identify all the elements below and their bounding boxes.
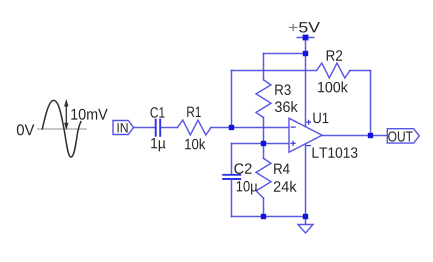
label 10mV [71,109,107,120]
label R1 [187,107,201,117]
op-amp non-inverting input mark [291,141,295,145]
label R2 [327,50,342,60]
resistor R2 [317,63,351,78]
sine wave [42,100,81,157]
label 10u [237,181,258,195]
label IN [118,123,128,132]
junction output node [368,133,373,138]
junction ground node [303,214,308,219]
wire R3 top lead [263,54,265,80]
op-amp V+ pin mark [307,120,311,124]
label OUT [388,131,413,141]
label U1 [313,113,328,123]
label 1u [151,138,165,151]
junction R4 bottom [261,214,266,219]
ground symbol [298,225,313,234]
op-amp U1 triangle [289,118,322,152]
label 100k [318,81,348,92]
wire C1 to R1 [160,127,177,129]
wire R3 bottom lead [263,118,265,144]
junction bias node [261,141,266,146]
wire C2 top lead [231,144,233,175]
wire R4 bottom lead [263,198,265,217]
wire down to output node [370,71,372,136]
wire R2 to output rail [350,70,371,72]
+5V supply flag [297,37,314,39]
label LT1013 [313,147,358,158]
resistor R4 [256,158,271,198]
label C1 [151,107,165,118]
junction +5V node [303,51,308,56]
wire feedback rail to R2 [232,70,317,72]
label 10k [185,138,205,149]
port IN flag [113,121,134,135]
capacitor C1 [156,120,161,136]
wire R1 to node A [211,127,289,129]
resistor R1 [178,120,212,135]
ground symbol stub [305,217,307,225]
label R4 [274,164,289,174]
wire op-amp V- down to rail [305,144,307,217]
wire supply junction to R3 top [264,53,306,55]
junction node A [229,125,234,130]
voltage source sine axis [38,128,87,130]
port OUT flag [387,129,419,143]
wire bottom rail [232,216,306,218]
label C2 [234,163,251,174]
label 24k [274,181,297,192]
wire node A up to feedback rail [231,71,233,128]
label 0V [17,124,34,135]
wire IN to C1 [134,127,156,129]
wire op-amp output [322,135,387,137]
wire non-inverting input [232,143,290,145]
op-amp inverting input mark [291,126,295,128]
wire +5V down to op-amp V+ [305,40,307,126]
op-amp V- pin mark [307,145,310,147]
amplitude arrow [65,100,69,129]
wire C2 bottom lead [231,179,233,217]
label R3 [275,84,290,95]
resistor R3 [256,80,271,118]
label 36k [275,101,298,112]
wire R4 top lead [263,144,265,159]
capacitor C2 [223,175,240,179]
label +5V [289,24,298,31]
